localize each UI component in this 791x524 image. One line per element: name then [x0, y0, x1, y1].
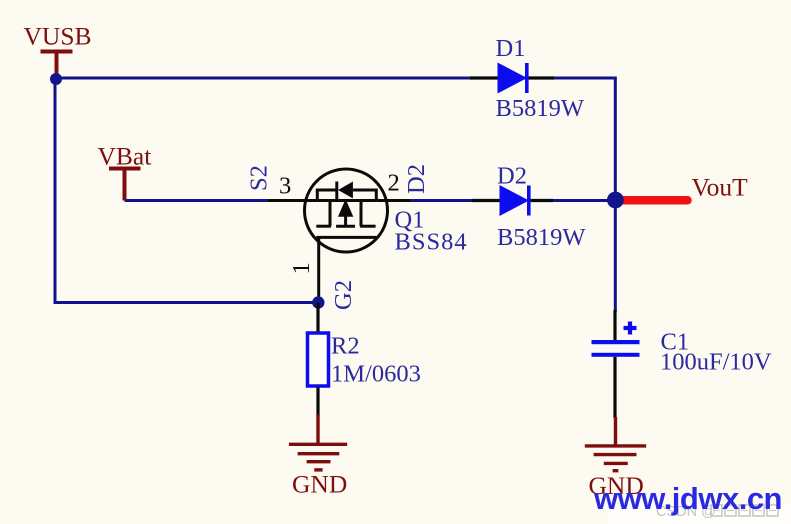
- resistor R2 top pin wire: [316, 303, 319, 332]
- resistor R2 bottom pin wire: [316, 388, 319, 417]
- svg-text:VouT: VouT: [692, 173, 749, 202]
- Q1 drain pin wire (pin 2): [376, 199, 410, 202]
- wire VBat to Q1 source: [125, 199, 271, 202]
- wire VUSB top rail horizontal: [55, 77, 617, 80]
- watermark band: [608, 504, 791, 524]
- svg-text:1: 1: [288, 262, 315, 274]
- power symbol VUSB: [41, 52, 73, 77]
- wire Q1 drain to D2: [408, 199, 475, 202]
- junction node VouT: [607, 192, 624, 209]
- Q1 gate plate line: [316, 236, 376, 239]
- wire left rail to gate horizontal: [54, 301, 319, 304]
- Q1 body-diode line left: [316, 189, 337, 192]
- svg-text:VBat: VBat: [98, 142, 152, 171]
- wire D2 to VouT node: [551, 199, 615, 202]
- ground GND right: [585, 417, 646, 471]
- Q1 channel leg left: [329, 201, 332, 227]
- svg-text:R2: R2: [331, 333, 360, 360]
- Q1 channel leg right: [360, 201, 363, 227]
- diode D2 pin 1 (anode pin wire): [472, 199, 501, 202]
- capacitor C1 bottom pin wire: [613, 357, 616, 418]
- Q1 circle body: [305, 169, 388, 252]
- Q1 body-diode arrow head: [338, 182, 353, 199]
- Q1 source pin wire (pin 3): [268, 199, 317, 202]
- svg-text:VUSB: VUSB: [24, 22, 92, 51]
- Q1 gate pin wire (pin 1): [317, 237, 320, 302]
- Q1 internal drain bar: [375, 189, 378, 201]
- power symbol VBat: [109, 169, 141, 201]
- diode D2 pin 2 (cathode pin wire): [529, 199, 553, 202]
- transistor Q1 BSS84 P-MOSFET: [268, 169, 410, 303]
- ground GND left: [289, 415, 347, 470]
- junction node VUSB: [50, 73, 62, 85]
- capacitor C1 polarity plus: [624, 322, 637, 335]
- svg-text:1M/0603: 1M/0603: [331, 361, 421, 388]
- wire right rail vertical: [614, 78, 617, 312]
- wire VouT (thick red): [616, 196, 688, 205]
- junction node gate/R2: [312, 296, 324, 308]
- wire left rail vertical: [54, 78, 57, 303]
- svg-text:3: 3: [279, 173, 291, 200]
- resistor R2 body: [308, 333, 329, 386]
- Q1 body-diode line right: [353, 189, 376, 192]
- diode D1 pin 1 (anode pin wire): [470, 76, 499, 79]
- Q1 channel segment middle: [336, 225, 355, 228]
- capacitor C1 top pin wire: [613, 310, 616, 341]
- svg-text:D2: D2: [403, 164, 430, 194]
- svg-text:100uF/10V: 100uF/10V: [660, 349, 772, 376]
- svg-text:D1: D1: [496, 35, 526, 62]
- svg-text:D2: D2: [497, 163, 527, 190]
- svg-text:B5819W: B5819W: [497, 224, 586, 251]
- svg-text:www.jdwx.cn: www.jdwx.cn: [593, 481, 782, 516]
- diode D1 pin 2 (cathode pin wire): [527, 76, 554, 79]
- Q1 body-diode cathode bar: [335, 182, 338, 200]
- svg-text:2: 2: [388, 170, 400, 197]
- Q1 bulk arrow stem: [344, 213, 347, 226]
- svg-text:GND: GND: [292, 470, 347, 499]
- svg-text:S2: S2: [246, 165, 273, 191]
- diode D1 body: [498, 63, 529, 94]
- capacitor C1 body: [592, 340, 640, 357]
- svg-text:BSS84: BSS84: [395, 229, 468, 256]
- Q1 internal source bar: [316, 189, 319, 201]
- svg-text:B5819W: B5819W: [496, 95, 585, 122]
- svg-text:G2: G2: [330, 280, 357, 310]
- Q1 channel segment right: [360, 225, 376, 228]
- Q1 internal rail between bars: [317, 199, 376, 202]
- diode D2 body: [500, 185, 531, 216]
- Q1 bulk arrow head: [338, 199, 353, 217]
- Q1 channel segment left: [316, 225, 331, 228]
